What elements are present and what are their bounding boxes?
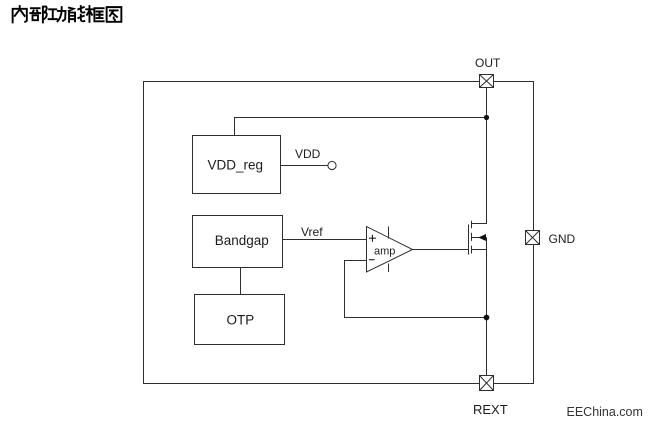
svg-text:VDD: VDD <box>295 147 321 161</box>
svg-text:Vref: Vref <box>301 225 323 239</box>
svg-text:OUT: OUT <box>475 56 501 70</box>
svg-text:Bandgap: Bandgap <box>215 233 269 248</box>
svg-text:GND: GND <box>549 232 576 246</box>
svg-text:REXT: REXT <box>473 402 508 417</box>
svg-text:EEChina.com: EEChina.com <box>567 405 643 419</box>
svg-text:VDD_reg: VDD_reg <box>208 158 264 173</box>
svg-text:amp: amp <box>374 246 395 258</box>
svg-text:OTP: OTP <box>227 313 255 328</box>
